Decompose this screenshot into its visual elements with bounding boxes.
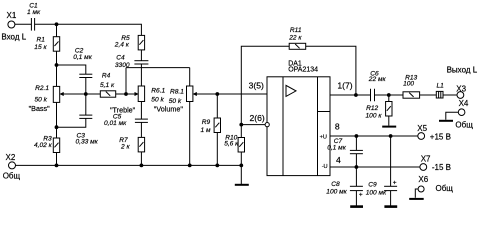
svg-text:R11: R11: [290, 27, 302, 34]
wire R10 top lead: [240, 125, 242, 138]
wire C2 bottom lead: [85, 78, 87, 95]
wire R3 bottom lead: [56, 153, 58, 166]
node top of R1: [55, 22, 59, 26]
wire C4 bottom node horizontal: [126, 67, 190, 69]
wire C5 bottom to R7: [140, 122, 142, 137]
wire R7 bottom lead: [140, 152, 142, 166]
wire L1 to X3: [443, 94, 457, 96]
svg-text:+: +: [393, 179, 397, 186]
svg-text:R2.1: R2.1: [35, 85, 49, 92]
resistor R3 4,02 к: [34, 136, 60, 153]
svg-text:8: 8: [335, 122, 340, 132]
resistor R1 15 к: [34, 37, 59, 52]
wire R8.1 wiper to op-amp input 3(5): [196, 93, 267, 95]
node A junction R1/C2/R2.1: [55, 63, 59, 67]
wire node A to C2: [57, 65, 86, 74]
wire pin 8 rail +U: [330, 135, 418, 137]
svg-text:C8: C8: [331, 181, 340, 188]
resistor R5 2,4 к: [114, 35, 145, 50]
svg-text:15 к: 15 к: [34, 44, 47, 51]
svg-text:0,01 мк: 0,01 мк: [104, 120, 127, 127]
svg-text:L1: L1: [437, 83, 445, 90]
svg-text:5,6 к: 5,6 к: [224, 140, 239, 147]
wire X4 to ground: [446, 112, 459, 120]
resistor R9 1 м: [201, 118, 221, 134]
ground R12: [382, 126, 396, 128]
wire R11 right to output node: [306, 46, 356, 95]
node R8.1 on bus: [188, 164, 192, 168]
svg-text:X4: X4: [459, 99, 469, 108]
wire R9 top lead: [216, 94, 218, 118]
svg-text:22 мк: 22 мк: [368, 76, 387, 83]
resistor R7 2 к: [119, 137, 144, 152]
svg-text:100 мк: 100 мк: [366, 190, 387, 197]
svg-text:R1: R1: [37, 37, 46, 44]
wire R1 bottom lead: [56, 51, 58, 65]
svg-text:2,4 к: 2,4 к: [114, 41, 130, 48]
svg-text:+15 В: +15 В: [430, 133, 451, 142]
svg-text:1 мк: 1 мк: [27, 9, 41, 16]
wire bus end down to ground: [240, 165, 242, 184]
node B junction R2.1/C3/R3: [55, 125, 59, 129]
svg-text:X2: X2: [6, 153, 16, 162]
svg-text:Общ: Общ: [455, 121, 473, 130]
resistor R4 5,1 к: [100, 73, 116, 98]
node C7 bottom / C8 top: [355, 165, 359, 169]
potentiometer R6.1 50 k Treble: [110, 86, 166, 115]
node R7 on bus: [140, 164, 144, 168]
node R9 on bus: [215, 164, 219, 168]
wire node A to R2.1 top: [56, 65, 58, 86]
svg-text:-15 В: -15 В: [432, 163, 451, 172]
ground main bus: [235, 184, 249, 186]
svg-text:22 к: 22 к: [288, 34, 302, 41]
svg-text:100 мк: 100 мк: [326, 189, 347, 196]
wire R13 to L1: [420, 94, 437, 96]
svg-text:-U: -U: [322, 164, 328, 170]
node C9 top: [389, 134, 393, 138]
wire output pin 1(7): [330, 94, 371, 96]
connector X1: [1, 11, 26, 42]
ground X4: [439, 120, 453, 122]
wire C3 bottom to node B: [57, 118, 86, 127]
connector X3 output: [447, 66, 478, 99]
wire C3 top lead: [85, 94, 87, 115]
capacitor C5 0,01 мк: [104, 113, 148, 127]
capacitor C2 0,1 мк: [73, 48, 93, 78]
svg-text:R8.1: R8.1: [170, 88, 184, 95]
wire R12 bottom lead: [388, 116, 390, 126]
node R10 on bus: [239, 164, 243, 168]
wire feedback vertical up: [241, 46, 289, 124]
resistor R12 100 к: [366, 102, 393, 120]
node feedback junction: [239, 123, 243, 127]
wire R1 top lead: [56, 24, 58, 36]
node output feedback tap: [354, 93, 358, 97]
svg-text:Выход L: Выход L: [447, 66, 478, 75]
svg-text:1(7): 1(7): [337, 81, 352, 91]
resistor R11 22 к: [288, 27, 306, 49]
node C4 branch on input wire: [124, 92, 128, 96]
svg-text:+: +: [359, 191, 363, 198]
svg-text:OPA2134: OPA2134: [288, 67, 318, 74]
svg-text:"Bass": "Bass": [29, 104, 51, 113]
connector X2: [3, 153, 21, 180]
ground C8: [350, 205, 363, 208]
svg-text:3(5): 3(5): [249, 80, 264, 90]
wire R2.1 bottom to node B: [56, 102, 58, 138]
potentiometer R2.1 50 k Bass: [29, 85, 86, 113]
wire R10 bottom lead: [240, 152, 242, 165]
node wiper R2.1 / C2 / C3 / R4: [84, 92, 88, 96]
svg-text:50 k: 50 k: [151, 97, 164, 104]
node R12 tap: [387, 93, 391, 97]
connector X6: [418, 175, 453, 193]
svg-text:5,1 к: 5,1 к: [100, 82, 115, 89]
wire pin 4 rail -U: [330, 166, 420, 168]
wire R5 to C4: [140, 50, 142, 61]
svg-text:100: 100: [403, 80, 414, 87]
svg-text:Вход L: Вход L: [1, 32, 26, 41]
svg-text:3300: 3300: [115, 62, 130, 69]
wire R12 top lead: [388, 95, 390, 102]
svg-text:0,33 мк: 0,33 мк: [76, 138, 99, 145]
wire C6 to R13: [375, 94, 404, 96]
capacitor C4 3300: [115, 54, 148, 69]
connector X7: [420, 155, 451, 172]
svg-text:R4: R4: [102, 73, 111, 80]
connector X4 output common: [455, 99, 473, 130]
svg-text:X7: X7: [421, 155, 431, 164]
capacitor C8 100 мк: [326, 167, 363, 206]
svg-text:R9: R9: [202, 119, 211, 126]
capacitor C3 0,33 мк: [76, 115, 99, 145]
node C7 top: [355, 134, 359, 138]
wire X6 to ground: [415, 189, 418, 198]
resistor R10 5,6 к: [224, 135, 244, 152]
capacitor C9 100 мк: [366, 136, 397, 206]
svg-text:R6.1: R6.1: [151, 88, 165, 95]
inductor L1: [436, 83, 444, 99]
wire R8.1 bottom lead to bus: [189, 102, 191, 166]
svg-text:X3: X3: [456, 85, 466, 94]
svg-text:Общ: Общ: [3, 172, 21, 181]
wire ground bus: [15, 164, 241, 166]
wire R8.1 top lead: [189, 68, 191, 86]
wire C4 branch vertical: [125, 68, 127, 94]
wire R6.1 bottom to C5: [140, 102, 142, 120]
svg-text:X6: X6: [418, 175, 428, 184]
capacitor C7 0,1 мк: [327, 136, 363, 167]
svg-text:+U: +U: [320, 134, 327, 140]
svg-text:X5: X5: [417, 124, 427, 133]
svg-text:"Volume": "Volume": [154, 105, 184, 114]
wire feedback node to 2(6): [241, 124, 265, 126]
svg-text:C9: C9: [368, 182, 377, 189]
svg-text:0,1 мк: 0,1 мк: [73, 54, 93, 61]
wire R4 left lead: [86, 93, 101, 95]
node R9 tap: [215, 92, 219, 96]
pin 2(6) label and inverting input circle: [250, 113, 270, 127]
svg-text:4: 4: [336, 155, 341, 165]
wire C4 bottom to R6.1 top: [140, 64, 142, 86]
wire R4 right lead to R6.1 wiper: [116, 93, 136, 95]
svg-text:2 к: 2 к: [120, 144, 130, 151]
svg-text:50 k: 50 k: [35, 96, 48, 103]
op-amp DA1 OPA2134: [267, 61, 330, 176]
svg-text:2(6): 2(6): [250, 113, 265, 123]
capacitor C1 1 мк: [27, 2, 41, 30]
svg-text:100 к: 100 к: [366, 113, 383, 120]
wire X1 to C1: [15, 23, 32, 25]
svg-text:0,1 мк: 0,1 мк: [327, 144, 347, 151]
svg-text:Общ: Общ: [436, 184, 454, 193]
resistor R13 100: [403, 74, 420, 98]
node R3 on bus: [55, 164, 59, 168]
svg-text:1 м: 1 м: [201, 127, 211, 134]
svg-text:R12: R12: [366, 105, 378, 112]
wire top rail C1 to R5 column: [35, 24, 142, 35]
svg-text:X1: X1: [7, 11, 17, 20]
ground C9: [384, 205, 397, 208]
svg-text:C4: C4: [116, 54, 125, 61]
capacitor C6 22 мк: [368, 70, 387, 101]
connector X5: [417, 124, 451, 142]
wire R9 bottom lead: [216, 133, 218, 166]
potentiometer R8.1 50 k Volume: [154, 86, 197, 114]
ground X6: [409, 198, 424, 200]
svg-text:4,02 к: 4,02 к: [34, 142, 53, 149]
